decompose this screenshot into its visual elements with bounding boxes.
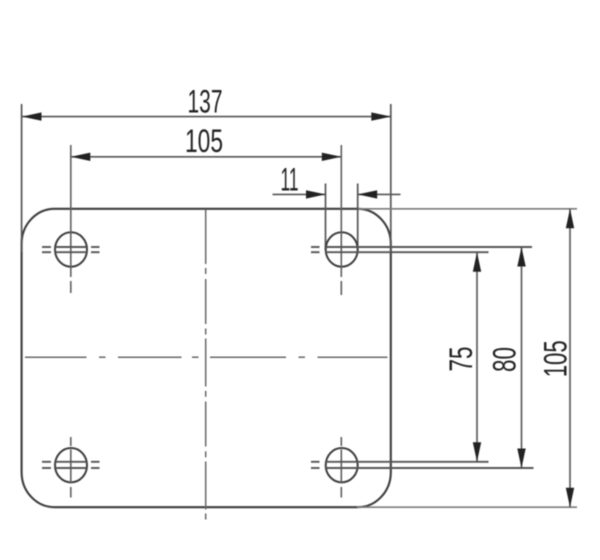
svg-text:105: 105 bbox=[185, 123, 223, 159]
svg-text:105: 105 bbox=[537, 340, 573, 377]
svg-text:75: 75 bbox=[443, 347, 479, 372]
arrow 137 left bbox=[22, 112, 42, 120]
svg-text:80: 80 bbox=[487, 347, 523, 372]
hole bottom-right slot line upper (extends to 75 dim) bbox=[311, 461, 489, 463]
hole bottom-left horizontal slot lines bbox=[42, 462, 100, 468]
arrow 11 left bbox=[306, 190, 326, 198]
vertical centerline of plate bbox=[205, 210, 207, 520]
hole top-right circle bbox=[326, 232, 358, 266]
hole bottom-left circle bbox=[55, 448, 87, 482]
hole bottom-right circle bbox=[326, 448, 358, 482]
extension line right edge (137) bbox=[390, 104, 392, 252]
hole top-right vertical centerline bbox=[340, 145, 342, 295]
arrow 75 top bbox=[473, 252, 481, 272]
hole top-right slot line lower (extends to 75 dim) bbox=[311, 251, 489, 253]
dimension 75 line bbox=[476, 252, 478, 462]
hole bottom-right slot line lower (extends to 80 dim) bbox=[311, 467, 534, 469]
arrow 105 left bbox=[71, 153, 91, 161]
dimension 11 line left segment bbox=[273, 193, 326, 195]
arrow 11 right bbox=[358, 190, 378, 198]
dimension 105 vertical line bbox=[569, 209, 571, 507]
arrow 105 right bbox=[322, 153, 342, 161]
extension line 11 left tangent bbox=[325, 184, 327, 251]
dimension 137 line bbox=[22, 116, 391, 118]
arrow 137 right bbox=[371, 112, 391, 120]
extension line bottom edge to right (105 vertical) bbox=[357, 506, 577, 508]
hole top-left circle bbox=[55, 232, 87, 266]
arrow 75 bottom bbox=[473, 442, 481, 462]
hole bottom-left vertical centerline bbox=[70, 437, 72, 498]
horizontal centerline of plate bbox=[25, 356, 388, 358]
hole bottom-right vertical centerline bbox=[340, 437, 342, 498]
dimension 80 line bbox=[521, 247, 523, 468]
arrow 105v bottom bbox=[566, 488, 574, 508]
arrow 80 bottom bbox=[517, 449, 525, 469]
dimension 11 line right segment bbox=[358, 193, 401, 195]
extension line 11 right tangent bbox=[357, 184, 359, 253]
hole top-left vertical centerline bbox=[70, 145, 72, 293]
dimension 105 line bbox=[71, 156, 342, 158]
plate outline bbox=[22, 209, 391, 507]
svg-text:11: 11 bbox=[281, 162, 299, 198]
extension line top edge to right (105 vertical) bbox=[357, 208, 577, 210]
hole top-right slot line upper (extends to 80 dim) bbox=[311, 246, 532, 248]
arrow 105v top bbox=[566, 209, 574, 229]
hole top-left horizontal slot lines bbox=[42, 247, 100, 252]
svg-text:137: 137 bbox=[188, 84, 223, 120]
extension line left edge (137) bbox=[21, 104, 23, 252]
arrow 80 top bbox=[517, 247, 525, 267]
